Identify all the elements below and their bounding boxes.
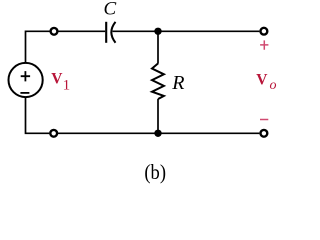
terminal bottom-left (50, 130, 57, 137)
wire: top junction down to resistor (157, 31, 159, 63)
resistor R zigzag (152, 63, 164, 99)
voltage source V1 (9, 63, 43, 97)
terminal top-left (51, 28, 58, 35)
wire: bottom-left terminal to bottom-right terminal (58, 132, 259, 134)
wire: source top to top-left corner to left terminal (26, 31, 50, 62)
wire: capacitor to top-right terminal (113, 30, 260, 32)
svg-text:C: C (104, 0, 117, 20)
svg-text:(b): (b) (144, 161, 166, 184)
svg-text:V: V (256, 71, 268, 88)
svg-text:o: o (270, 78, 277, 93)
svg-text:1: 1 (63, 78, 71, 94)
wire: resistor to bottom junction (157, 99, 159, 133)
wire: source bottom to bottom-left corner to left terminal (26, 98, 50, 134)
junction dot top (154, 28, 161, 35)
svg-text:V: V (51, 70, 63, 87)
svg-text:R: R (171, 72, 184, 94)
terminal bottom-right (261, 130, 268, 137)
red plus (output polarity) (260, 40, 268, 49)
terminal top-right (261, 28, 268, 35)
junction dot bottom (154, 130, 161, 137)
plus sign inside source (21, 71, 30, 81)
red minus (output polarity) (260, 119, 268, 121)
capacitor C: flat plate (105, 22, 107, 43)
wire: left terminal to capacitor (58, 30, 105, 32)
minus sign inside source (20, 92, 29, 94)
capacitor C: curved plate (111, 22, 115, 43)
